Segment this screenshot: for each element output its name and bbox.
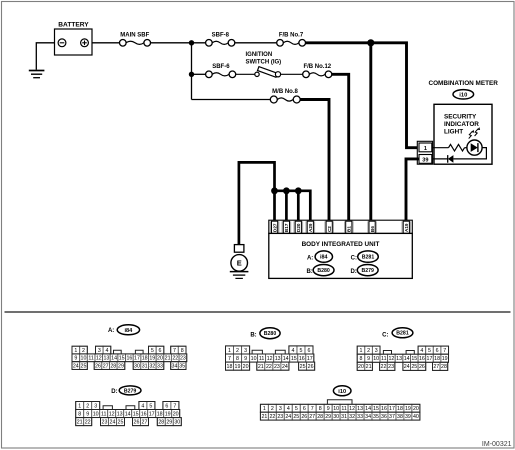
svg-text:28: 28 [317, 414, 323, 420]
svg-text:B280: B280 [317, 268, 330, 274]
security indicator light label [444, 114, 479, 136]
svg-text:1: 1 [74, 348, 77, 354]
pin B1 (body integrated unit) [345, 221, 353, 233]
ground point E [230, 245, 249, 279]
connector B B280 pin grid [226, 346, 315, 370]
svg-text:18: 18 [142, 356, 148, 362]
svg-text:SECURITY: SECURITY [444, 114, 477, 121]
svg-text:B6: B6 [370, 226, 375, 232]
svg-text:11: 11 [259, 356, 265, 362]
pin D27 (body integrated unit) [270, 221, 278, 233]
svg-text:13: 13 [396, 356, 402, 362]
svg-text:24: 24 [73, 364, 79, 370]
body integrated unit pin strip [269, 220, 413, 233]
svg-text:20: 20 [243, 364, 249, 370]
svg-text:19: 19 [442, 356, 448, 362]
svg-text:29: 29 [118, 364, 124, 370]
svg-text:E: E [237, 259, 242, 268]
body integrated unit box U1 [269, 233, 413, 278]
wire thick: F/B No.12 to pin B1 [332, 74, 349, 221]
svg-text:A19: A19 [404, 223, 409, 232]
svg-text:2: 2 [236, 348, 239, 354]
svg-text:B17: B17 [284, 223, 289, 232]
meter connector pins 1 / 39 [417, 141, 432, 164]
pin A29 (body integrated unit) [306, 221, 314, 233]
LED D1 (security indicator) [467, 140, 482, 155]
svg-text:15: 15 [133, 411, 139, 417]
svg-text:13: 13 [103, 356, 109, 362]
svg-text:F/B No.7: F/B No.7 [279, 32, 304, 38]
svg-text:17: 17 [149, 411, 155, 417]
junction node (B6 tap) [367, 39, 374, 46]
svg-text:14: 14 [111, 356, 117, 362]
diode D2 (in meter) [448, 155, 454, 163]
svg-text:8: 8 [319, 406, 322, 412]
svg-text:3: 3 [244, 348, 247, 354]
svg-text:C:: C: [351, 256, 357, 262]
svg-text:29: 29 [325, 414, 331, 420]
svg-text:B1: B1 [347, 226, 352, 232]
svg-text:32: 32 [349, 414, 355, 420]
resistor R (in meter) [449, 144, 465, 151]
svg-text:D20: D20 [296, 223, 301, 232]
svg-text:15: 15 [119, 356, 125, 362]
svg-text:26: 26 [134, 420, 140, 426]
svg-text:16: 16 [126, 356, 132, 362]
svg-text:5: 5 [428, 348, 431, 354]
svg-text:15: 15 [373, 406, 379, 412]
svg-text:20: 20 [413, 406, 419, 412]
wire thick: pin B17 drop [285, 191, 288, 222]
svg-text:26: 26 [308, 364, 314, 370]
svg-text:22: 22 [381, 364, 387, 370]
svg-text:D:: D: [350, 269, 356, 275]
svg-text:F/B No.12: F/B No.12 [303, 64, 331, 70]
svg-text:39: 39 [422, 158, 428, 164]
fuse F/B No.12 [303, 64, 332, 78]
pin A19 (body integrated unit) [402, 221, 410, 233]
svg-text:28: 28 [441, 364, 447, 370]
svg-text:17: 17 [307, 356, 313, 362]
svg-text:B:: B: [250, 332, 256, 338]
svg-text:30: 30 [174, 420, 180, 426]
svg-text:i10: i10 [338, 389, 346, 395]
svg-text:28: 28 [158, 420, 164, 426]
svg-text:22: 22 [269, 414, 275, 420]
svg-text:3: 3 [279, 406, 282, 412]
svg-text:5: 5 [149, 403, 152, 409]
wire diode to pin 39 [432, 158, 448, 160]
battery B1 [55, 22, 93, 56]
svg-text:30: 30 [134, 364, 140, 370]
svg-text:19: 19 [405, 406, 411, 412]
svg-text:2: 2 [367, 348, 370, 354]
svg-text:31: 31 [142, 364, 148, 370]
svg-text:6: 6 [165, 403, 168, 409]
svg-text:6: 6 [436, 348, 439, 354]
svg-text:5: 5 [151, 348, 154, 354]
svg-text:25: 25 [81, 364, 87, 370]
svg-text:22: 22 [85, 420, 91, 426]
svg-text:8: 8 [78, 411, 81, 417]
svg-text:16: 16 [141, 411, 147, 417]
svg-text:3: 3 [375, 348, 378, 354]
svg-text:4: 4 [106, 348, 109, 354]
svg-text:27: 27 [142, 420, 148, 426]
svg-text:16: 16 [381, 406, 387, 412]
svg-text:B280: B280 [264, 331, 277, 337]
svg-text:B279: B279 [361, 268, 374, 274]
svg-text:11: 11 [381, 356, 387, 362]
svg-text:22: 22 [266, 364, 272, 370]
svg-text:1: 1 [263, 406, 266, 412]
wire pin1 to resistor [432, 147, 449, 149]
svg-text:2: 2 [86, 403, 89, 409]
svg-text:21: 21 [261, 414, 267, 420]
svg-text:25: 25 [293, 414, 299, 420]
junction node (row 2 tap) [189, 72, 194, 77]
pin C2 (body integrated unit) [325, 221, 333, 233]
svg-text:10: 10 [251, 356, 257, 362]
svg-text:10: 10 [333, 406, 339, 412]
svg-text:29: 29 [166, 420, 172, 426]
fuse M/B No.8 [192, 89, 301, 103]
svg-text:SBF-6: SBF-6 [212, 64, 230, 70]
svg-text:2: 2 [82, 348, 85, 354]
svg-text:28: 28 [110, 364, 116, 370]
svg-text:25: 25 [118, 420, 124, 426]
svg-text:COMBINATION METER: COMBINATION METER [428, 80, 498, 87]
svg-text:4: 4 [287, 406, 290, 412]
svg-text:INDICATOR: INDICATOR [444, 121, 479, 128]
svg-text:3: 3 [98, 348, 101, 354]
svg-text:17: 17 [389, 406, 395, 412]
svg-text:7: 7 [173, 348, 176, 354]
svg-text:D27: D27 [272, 223, 277, 232]
svg-text:16: 16 [419, 356, 425, 362]
svg-text:5: 5 [300, 348, 303, 354]
svg-text:BODY INTEGRATED UNIT: BODY INTEGRATED UNIT [302, 241, 380, 248]
svg-text:31: 31 [341, 414, 347, 420]
svg-text:15: 15 [291, 356, 297, 362]
svg-text:B281: B281 [362, 254, 375, 260]
svg-text:19: 19 [149, 356, 155, 362]
svg-text:16: 16 [299, 356, 305, 362]
svg-text:8: 8 [360, 356, 363, 362]
connector i10 pin grid [260, 400, 420, 420]
wire thick: F/B No.7 to combination meter pin 1 [306, 43, 419, 148]
svg-text:30: 30 [333, 414, 339, 420]
svg-text:3: 3 [94, 403, 97, 409]
svg-text:40: 40 [413, 414, 419, 420]
wire thick: ground bus horizontal [275, 191, 311, 222]
svg-text:1: 1 [78, 403, 81, 409]
svg-text:9: 9 [244, 356, 247, 362]
svg-text:6: 6 [303, 406, 306, 412]
svg-text:14: 14 [283, 356, 289, 362]
svg-text:LIGHT: LIGHT [444, 129, 463, 136]
svg-text:23: 23 [274, 364, 280, 370]
svg-text:24: 24 [285, 414, 291, 420]
junction node (B17 bus) [283, 187, 290, 194]
svg-text:B281: B281 [396, 331, 409, 337]
svg-text:1: 1 [228, 348, 231, 354]
connector A i84 pin grid [72, 346, 187, 369]
fuse MAIN SBF [120, 32, 151, 46]
svg-text:23: 23 [277, 414, 283, 420]
svg-text:21: 21 [258, 364, 264, 370]
svg-text:20: 20 [173, 411, 179, 417]
LED flash arrows [469, 127, 480, 139]
svg-text:C:: C: [382, 332, 388, 338]
svg-text:25: 25 [300, 364, 306, 370]
svg-text:11: 11 [101, 411, 107, 417]
svg-text:D:: D: [111, 389, 117, 395]
svg-text:10: 10 [373, 356, 379, 362]
svg-text:IGNITION: IGNITION [246, 52, 273, 58]
ground (battery) [29, 71, 45, 78]
pin B17 (body integrated unit) [282, 221, 290, 233]
svg-text:12: 12 [96, 356, 102, 362]
svg-text:9: 9 [367, 356, 370, 362]
svg-text:33: 33 [357, 414, 363, 420]
wire MAIN SBF to SBF-8 [151, 42, 206, 44]
connector i10 label [333, 386, 351, 396]
pin B6 (body integrated unit) [368, 221, 376, 233]
svg-text:34: 34 [365, 414, 371, 420]
svg-text:19: 19 [235, 364, 241, 370]
svg-text:18: 18 [434, 356, 440, 362]
svg-text:32: 32 [149, 364, 155, 370]
junction node (D20 bus) [295, 187, 302, 194]
svg-text:A:: A: [108, 328, 114, 334]
svg-text:MAIN SBF: MAIN SBF [120, 32, 149, 38]
svg-text:21: 21 [77, 420, 83, 426]
svg-text:A:: A: [307, 256, 313, 262]
svg-text:23: 23 [102, 420, 108, 426]
wire battery+ to MAIN SBF [92, 42, 120, 44]
separator line [5, 311, 511, 313]
svg-text:27: 27 [103, 364, 109, 370]
svg-text:20: 20 [157, 356, 163, 362]
svg-text:27: 27 [433, 364, 439, 370]
svg-text:i84: i84 [320, 255, 328, 261]
svg-text:7: 7 [311, 406, 314, 412]
svg-text:6: 6 [308, 348, 311, 354]
svg-text:18: 18 [397, 406, 403, 412]
svg-text:23: 23 [180, 356, 186, 362]
svg-text:11: 11 [88, 356, 94, 362]
connector D B279 pin grid [76, 402, 182, 426]
wire resistor to LED [465, 147, 468, 149]
wire thick: pin D20 drop [297, 191, 300, 222]
svg-text:22: 22 [172, 356, 178, 362]
svg-text:2: 2 [271, 406, 274, 412]
svg-text:39: 39 [405, 414, 411, 420]
op meter box [434, 104, 492, 164]
svg-text:36: 36 [381, 414, 387, 420]
svg-text:26: 26 [301, 414, 307, 420]
svg-text:i10: i10 [459, 92, 467, 98]
svg-text:7: 7 [228, 356, 231, 362]
svg-text:9: 9 [74, 356, 77, 362]
svg-text:11: 11 [341, 406, 347, 412]
svg-text:13: 13 [275, 356, 281, 362]
svg-text:24: 24 [404, 364, 410, 370]
svg-text:B279: B279 [124, 388, 137, 394]
wire LED loop to diode line [453, 148, 486, 159]
svg-text:20: 20 [358, 364, 364, 370]
svg-text:B:: B: [306, 269, 312, 275]
svg-text:12: 12 [349, 406, 355, 412]
wire thick: M/B No.8 to pin C2 [300, 100, 329, 222]
svg-text:38: 38 [397, 414, 403, 420]
connector C B281 pin grid [357, 346, 448, 370]
svg-text:24: 24 [110, 420, 116, 426]
svg-text:SBF-8: SBF-8 [212, 32, 230, 38]
svg-text:C2: C2 [327, 226, 332, 232]
svg-text:23: 23 [388, 364, 394, 370]
svg-text:9: 9 [86, 411, 89, 417]
svg-text:4: 4 [141, 403, 144, 409]
svg-text:26: 26 [95, 364, 101, 370]
svg-text:1: 1 [360, 348, 363, 354]
wire battery to chassis ground [36, 43, 54, 70]
svg-text:5: 5 [295, 406, 298, 412]
svg-text:7: 7 [173, 403, 176, 409]
svg-text:21: 21 [165, 356, 171, 362]
svg-text:34: 34 [172, 364, 178, 370]
svg-text:4: 4 [420, 348, 423, 354]
connector ref i10 (meter) [453, 90, 474, 99]
svg-text:37: 37 [389, 414, 395, 420]
fuse SBF-8 [206, 32, 235, 46]
svg-text:14: 14 [404, 356, 410, 362]
svg-text:4: 4 [292, 348, 295, 354]
svg-text:25: 25 [411, 364, 417, 370]
svg-text:M/B No.8: M/B No.8 [272, 89, 298, 95]
junction node (main feed split) [189, 40, 194, 45]
svg-text:i84: i84 [125, 328, 134, 334]
svg-text:35: 35 [373, 414, 379, 420]
svg-text:A29: A29 [308, 223, 313, 232]
svg-text:15: 15 [411, 356, 417, 362]
wire vertical branch feed [191, 43, 193, 100]
svg-text:IM-00321: IM-00321 [482, 441, 512, 448]
fuse F/B No.7 [277, 32, 306, 46]
svg-text:27: 27 [309, 414, 315, 420]
svg-text:19: 19 [165, 411, 171, 417]
svg-text:24: 24 [282, 364, 288, 370]
svg-text:SWITCH (IG): SWITCH (IG) [246, 60, 282, 66]
svg-text:26: 26 [419, 364, 425, 370]
svg-text:14: 14 [365, 406, 371, 412]
svg-text:7: 7 [443, 348, 446, 354]
svg-text:13: 13 [357, 406, 363, 412]
svg-text:17: 17 [427, 356, 433, 362]
wire thick: pin 39 to pin A19 [406, 159, 419, 222]
svg-text:35: 35 [179, 364, 185, 370]
svg-text:10: 10 [93, 411, 99, 417]
fuse SBF-6 [192, 64, 236, 78]
svg-text:8: 8 [236, 356, 239, 362]
pin D20 (body integrated unit) [294, 221, 302, 233]
svg-text:18: 18 [227, 364, 233, 370]
svg-text:12: 12 [109, 411, 115, 417]
svg-text:21: 21 [366, 364, 372, 370]
svg-text:9: 9 [327, 406, 330, 412]
svg-text:12: 12 [267, 356, 273, 362]
svg-text:10: 10 [81, 356, 87, 362]
junction node (D27 bus) [271, 187, 278, 194]
svg-text:17: 17 [134, 356, 140, 362]
svg-text:18: 18 [157, 411, 163, 417]
svg-text:8: 8 [181, 348, 184, 354]
ignition switch SW1 (IG) [236, 52, 303, 77]
svg-text:12: 12 [388, 356, 394, 362]
svg-text:14: 14 [125, 411, 131, 417]
svg-text:1: 1 [424, 146, 427, 152]
svg-text:BATTERY: BATTERY [58, 22, 89, 29]
svg-text:13: 13 [117, 411, 123, 417]
wire SBF-8 to F/B No.7 [235, 42, 277, 44]
wire thick: ground bus to E [239, 162, 275, 244]
wire thick: node to pin B6 [369, 43, 372, 222]
svg-text:33: 33 [157, 364, 163, 370]
svg-text:6: 6 [159, 348, 162, 354]
